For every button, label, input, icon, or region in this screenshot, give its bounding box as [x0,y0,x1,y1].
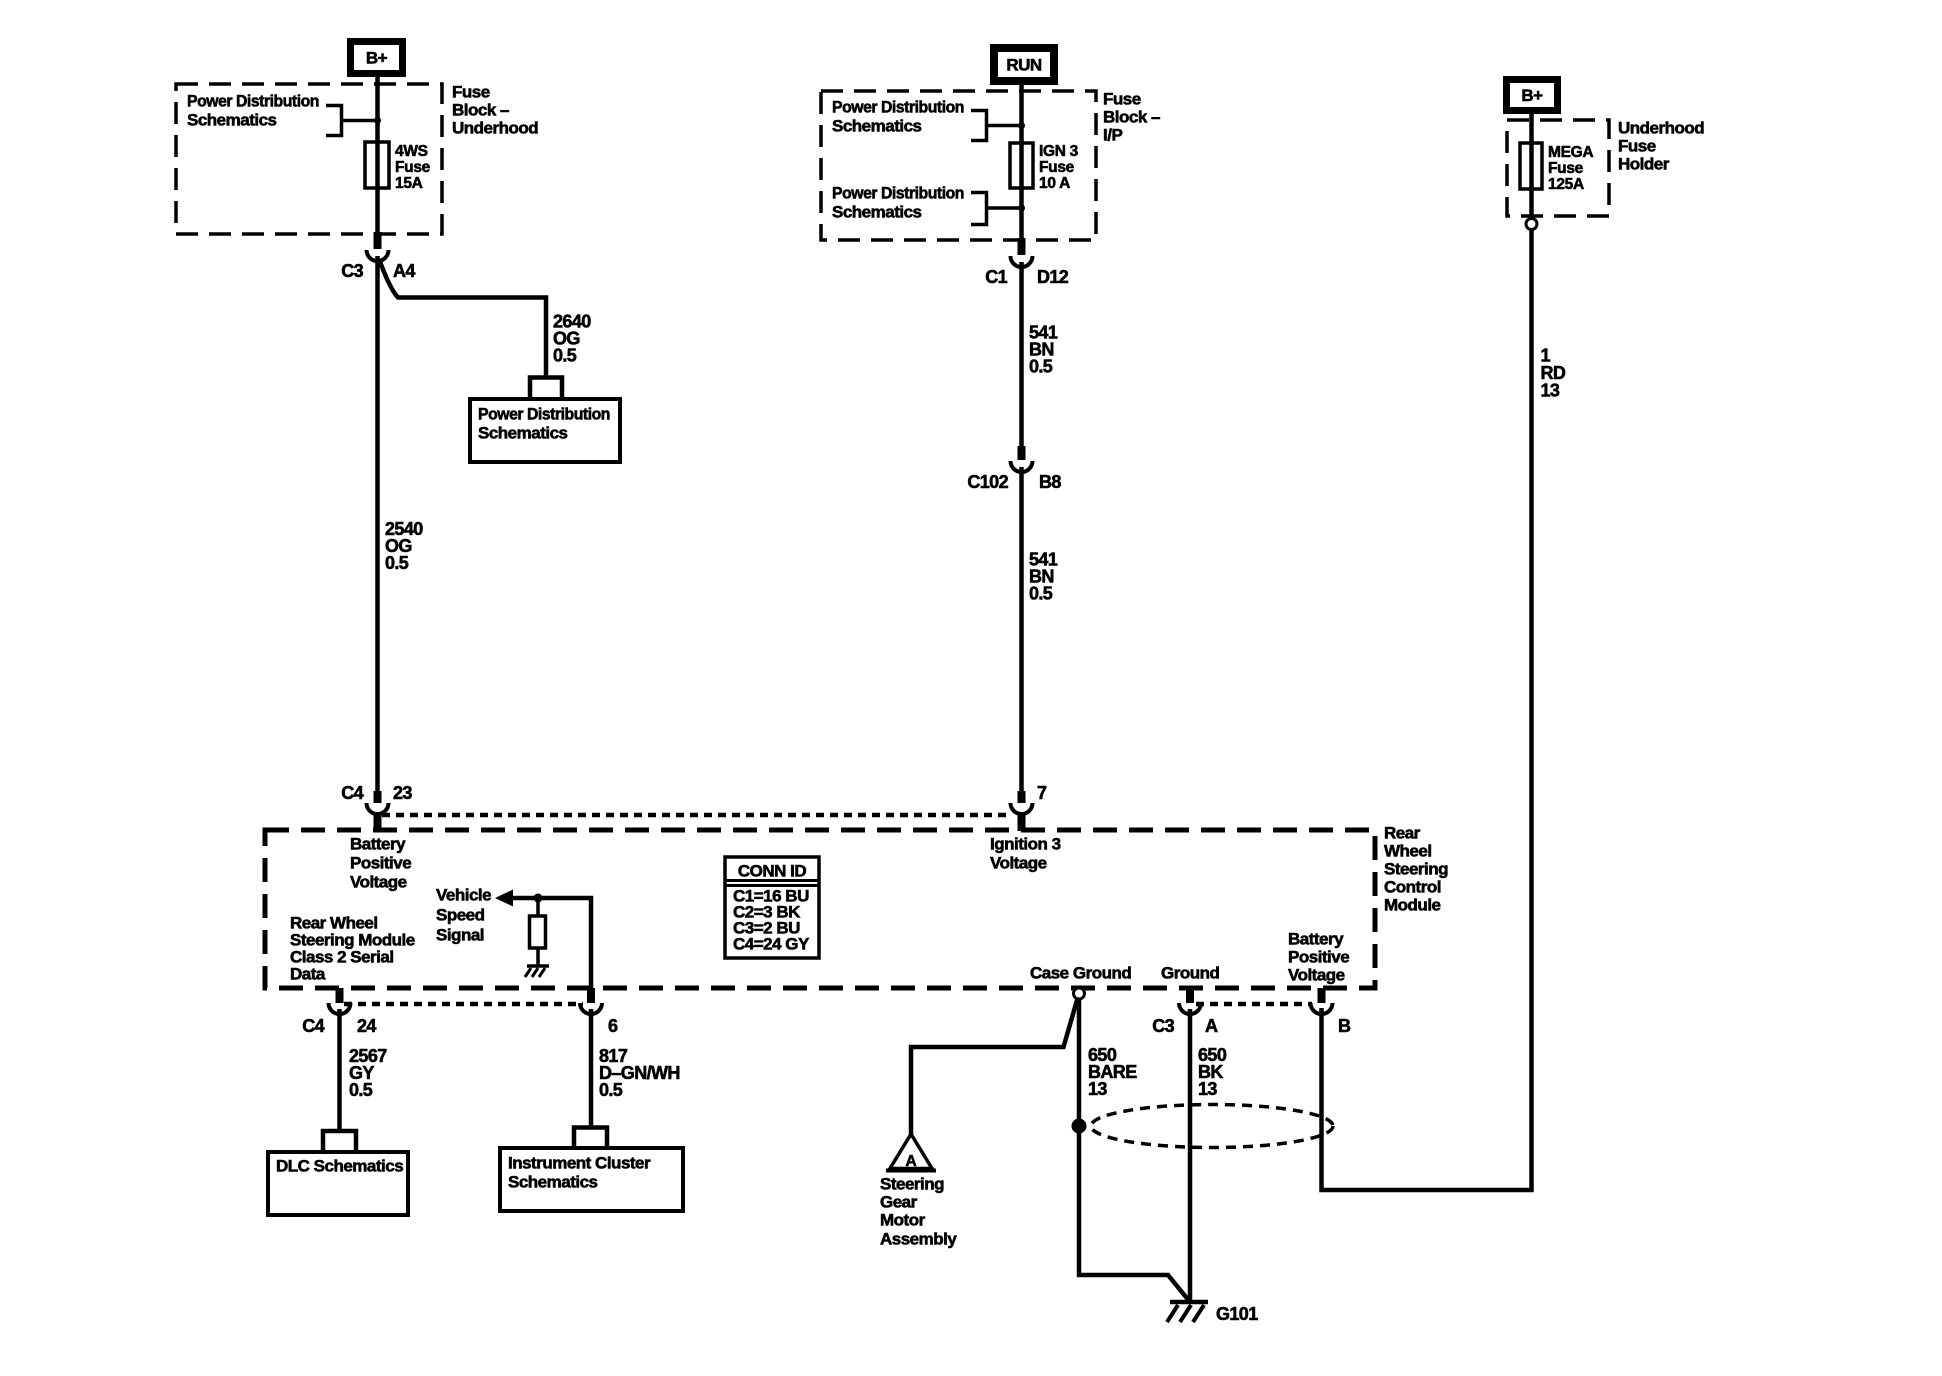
connector C3 pin A (stub + arc) [1179,988,1201,1014]
fuse F3 MEGA 125A body [1520,143,1542,189]
svg-text:Fuse: Fuse [1548,160,1584,177]
connector C4 pin 24 (stub + arc) [329,988,351,1014]
svg-text:Fuse: Fuse [395,159,431,176]
wire B+ through MEGA fuse [1529,112,1534,218]
svg-text:Assembly: Assembly [880,1230,957,1249]
label: MEGA Fuse 125A [1548,144,1593,193]
svg-text:I/P: I/P [1103,126,1122,145]
connector pin 7 (tip + arc + stub) [1011,791,1033,831]
label: 650 BARE 13 [1088,1045,1137,1099]
box: DLC Schematics [268,1152,408,1215]
svg-text:C102: C102 [967,472,1008,492]
underhood fuse holder dashed box [1507,120,1609,216]
label C102 / B8 [967,472,1061,492]
svg-text:Instrument Cluster: Instrument Cluster [508,1154,651,1173]
svg-text:Power Distribution: Power Distribution [478,405,610,424]
fuse block I/P dashed box [821,91,1096,240]
ground G101 symbol [1167,1302,1208,1322]
wire 541 BN lower segment [1019,467,1024,791]
svg-text:C3: C3 [1152,1016,1174,1036]
svg-text:Positive: Positive [1288,948,1349,967]
svg-text:Data: Data [290,965,326,984]
label: Steering Gear Motor Assembly [880,1175,957,1249]
svg-text:0.5: 0.5 [349,1080,373,1100]
wire 1 RD 13 long vertical to module B [1322,230,1532,1190]
node: splice junction dot on 650 BARE [1072,1119,1087,1134]
svg-text:G101: G101 [1216,1304,1258,1324]
svg-text:C4: C4 [302,1016,324,1036]
label: IGN 3 Fuse 10 A [1039,143,1079,192]
svg-text:Fuse: Fuse [452,83,490,102]
label: Power Distribution Schematics (lower) [832,184,964,222]
wire to termination resistor [536,898,540,916]
label C4 / 24 [302,1016,376,1036]
power symbol RUN (ignition) [994,48,1054,81]
bracket link upper [971,111,1021,141]
label: 2640 OG 0.5 [553,312,591,366]
svg-text:Power Distribution: Power Distribution [832,184,964,203]
label: 541 BN 0.5 (lower) [1029,550,1058,604]
svg-text:C3: C3 [341,261,363,281]
label C1 / D12 [985,267,1069,287]
svg-text:4WS: 4WS [395,143,428,160]
svg-text:0.5: 0.5 [553,346,577,366]
svg-text:Speed: Speed [436,906,485,925]
svg-text:0.5: 0.5 [1029,584,1053,604]
svg-text:0.5: 0.5 [385,553,409,573]
svg-text:DLC Schematics: DLC Schematics [276,1157,403,1176]
svg-text:Case Ground: Case Ground [1030,964,1131,983]
svg-text:B+: B+ [366,49,388,68]
label C3 / A [1152,1016,1218,1036]
resistor (VSS termination) [530,916,546,948]
svg-text:Steering: Steering [880,1175,944,1194]
CONN ID table [725,857,819,958]
svg-text:125A: 125A [1548,176,1584,193]
svg-text:D12: D12 [1037,267,1069,287]
svg-text:CONN ID: CONN ID [738,862,807,881]
dotted tie line between pin 23 and pin 7 [382,813,1012,818]
label: Ignition 3 Voltage [990,835,1061,873]
svg-text:A: A [906,1153,917,1170]
svg-text:B8: B8 [1039,472,1061,492]
label: 2540 OG 0.5 [385,519,423,573]
svg-text:RUN: RUN [1006,56,1042,75]
fuse block underhood dashed box [176,84,442,234]
dotted tie line between pin A and pin B [1196,1002,1312,1007]
connector C1 pin D12 (stub + arc) [1011,238,1033,267]
power symbol B+ (left, battery positive) [351,42,403,74]
svg-text:A4: A4 [393,261,415,281]
svg-text:0.5: 0.5 [599,1080,623,1100]
svg-text:6: 6 [608,1016,618,1036]
svg-text:Voltage: Voltage [1288,966,1345,985]
fuse F1 4WS 15A body [365,142,389,188]
label: Fuse Block - Underhood [452,83,538,138]
wire 650 BARE 13 [1079,999,1190,1302]
label: 650 BK 13 [1198,1045,1227,1099]
wire RUN through IGN3 fuse [1019,83,1024,240]
wire case ground to steering gear motor assembly [911,999,1078,1135]
svg-text:Steering: Steering [1384,860,1448,879]
svg-text:Fuse: Fuse [1039,159,1075,176]
label: Battery Positive Voltage (left) [350,835,411,892]
svg-text:Underhood: Underhood [452,119,538,138]
terminal ring at fuse holder exit [1526,219,1537,230]
label: 1 RD 13 [1541,346,1566,401]
node: junction dot VSS [534,894,543,903]
svg-text:Block –: Block – [1103,108,1160,127]
shield ellipse (dashed) [1091,1105,1333,1148]
svg-text:15A: 15A [395,175,423,192]
svg-text:C1: C1 [985,267,1007,287]
svg-text:13: 13 [1088,1079,1107,1099]
svg-text:Schematics: Schematics [832,203,922,222]
connector pin B (stub + arc) [1311,988,1333,1014]
svg-text:Fuse: Fuse [1103,90,1141,109]
dotted tie line between pin 24 and pin 6 [344,1002,583,1007]
label: 817 D-GN/WH 0.5 [599,1046,680,1100]
connector C3 pin A4 (stub + arc) [367,232,389,261]
svg-text:Block –: Block – [452,101,509,120]
wire 2567 GY to DLC [337,1009,342,1131]
fuse F2 IGN3 10A body [1010,143,1033,188]
svg-text:Vehicle: Vehicle [436,886,491,905]
node: junction dot upper [1018,122,1025,129]
svg-text:Schematics: Schematics [832,117,922,136]
svg-text:Battery: Battery [1288,930,1344,949]
label: Fuse Block - I/P [1103,90,1160,145]
svg-text:Battery: Battery [350,835,406,854]
svg-text:Ground: Ground [1161,964,1219,983]
svg-text:Rear: Rear [1384,824,1421,843]
label: 541 BN 0.5 (upper) [1029,323,1058,377]
svg-text:13: 13 [1541,381,1560,401]
connector bracket into PDS box [530,378,562,400]
svg-text:IGN 3: IGN 3 [1039,143,1079,160]
svg-text:C4=24 GY: C4=24 GY [733,935,810,954]
svg-text:Fuse: Fuse [1618,137,1656,156]
svg-text:Positive: Positive [350,854,411,873]
label: Power Distribution Schematics (upper) [832,98,964,136]
wire 650 BK 13 to G101 [1188,1009,1193,1302]
label: Power Distribution Schematics (underhood) [187,92,319,130]
svg-text:Motor: Motor [880,1211,926,1230]
svg-text:Underhood: Underhood [1618,119,1704,138]
svg-text:Control: Control [1384,878,1441,897]
svg-text:Power Distribution: Power Distribution [832,98,964,117]
svg-text:Signal: Signal [436,926,484,945]
svg-text:Wheel: Wheel [1384,842,1432,861]
svg-text:Schematics: Schematics [478,424,568,443]
wire 541 BN upper segment [1019,262,1024,446]
svg-text:24: 24 [357,1016,376,1036]
case ground ring terminal [1074,988,1085,999]
svg-text:A: A [1205,1016,1218,1036]
label: Vehicle Speed Signal [436,886,491,945]
vehicle speed signal arrow [495,890,513,907]
label: Rear Wheel Steering Module Class 2 Serial Data [290,914,415,984]
svg-text:B+: B+ [1521,86,1543,105]
svg-text:Voltage: Voltage [990,854,1047,873]
label C4 / 23 (module top left input) [341,783,412,803]
bracket link lower [971,193,1021,225]
power symbol B+ (right, underhood) [1507,80,1558,111]
label: 2567 GY 0.5 [349,1046,387,1100]
node: junction dot lower [1018,205,1025,212]
connector pin 6 (stub + arc) [580,988,602,1014]
svg-text:Voltage: Voltage [350,873,407,892]
svg-text:C4: C4 [341,783,363,803]
svg-text:Holder: Holder [1618,155,1670,174]
connector bracket into instrument cluster box [574,1128,607,1149]
rear wheel steering control module dashed box [265,830,1375,988]
svg-text:Module: Module [1384,896,1441,915]
label: Battery Positive Voltage (right) [1288,930,1349,985]
connector bracket into DLC box [323,1131,356,1152]
svg-text:Gear: Gear [880,1193,918,1212]
svg-text:13: 13 [1198,1079,1217,1099]
bracket link to power distribution (underhood) [326,106,377,136]
box: Power Distribution Schematics (ref box) [470,399,620,462]
internal chassis ground symbol [525,966,549,977]
wire vehicle speed signal [508,898,591,989]
svg-text:Power Distribution: Power Distribution [187,92,319,111]
svg-text:7: 7 [1037,783,1047,803]
label: Underhood Fuse Holder [1618,119,1704,174]
wire resistor to ground [536,948,540,966]
svg-text:Schematics: Schematics [508,1173,598,1192]
wire 817 D-GN/WH to instrument cluster [589,1009,594,1127]
svg-text:B: B [1338,1016,1351,1036]
svg-text:MEGA: MEGA [1548,144,1593,161]
label C3 / A4 [341,261,415,281]
node: junction dot on B+ feed [374,117,381,124]
svg-text:0.5: 0.5 [1029,357,1053,377]
svg-text:10 A: 10 A [1039,175,1070,192]
wire B+ through 4WS fuse [375,75,380,234]
connector C102 pin B8 (tip + arc) [1011,446,1033,472]
wire branch A4 to power distribution schematics [379,259,546,377]
triangle A (steering gear motor assembly) [886,1134,936,1171]
wire 2540 OG main vertical [375,256,380,791]
svg-text:Schematics: Schematics [187,111,277,130]
svg-text:Ignition 3: Ignition 3 [990,835,1061,854]
label: Rear Wheel Steering Control Module [1384,824,1448,915]
connector C4 pin 23 (tip + arc + stub) [367,791,389,831]
svg-text:23: 23 [393,783,412,803]
box: Instrument Cluster Schematics [500,1148,683,1211]
label: 4WS Fuse 15A [395,143,431,192]
